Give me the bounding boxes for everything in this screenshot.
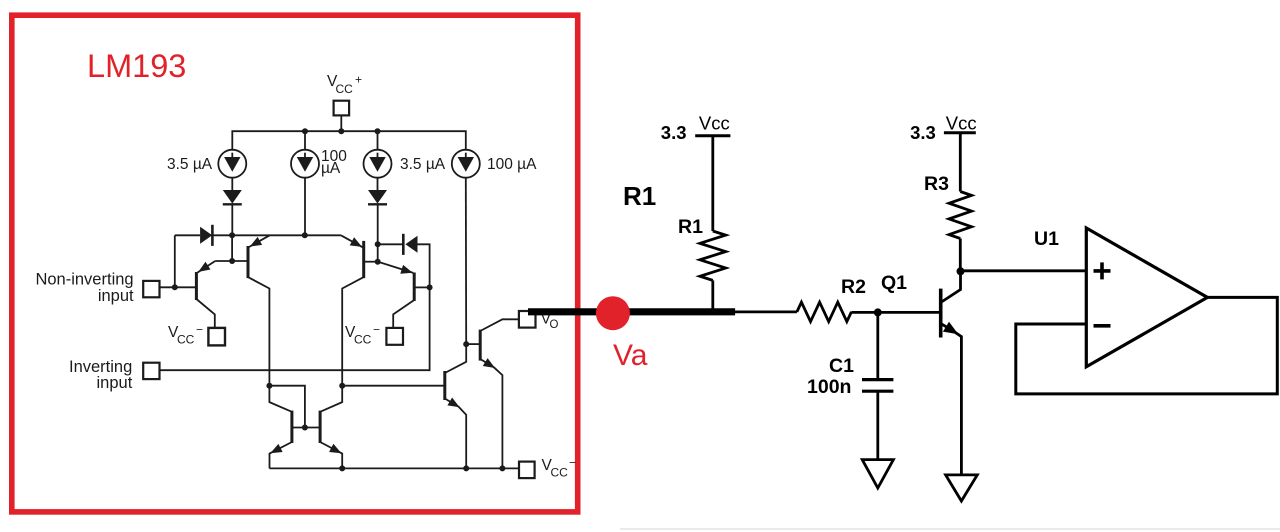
wire I3 node down to T5 base node	[377, 244, 379, 261]
wire node N to T7 base	[342, 385, 445, 387]
wire I2 feed	[304, 178, 306, 236]
wire emitter rail L1	[212, 234, 341, 236]
terminal non-inverting input	[143, 281, 159, 297]
transistor Q1	[941, 271, 962, 475]
node M (mirror left)	[266, 383, 272, 389]
current source I3 3.5uA	[364, 150, 392, 178]
wire VCC+ stub	[340, 115, 342, 131]
node Va (red)	[596, 296, 630, 330]
transistor T6 (inverting input follower PNP)	[378, 262, 430, 328]
terminal VO	[519, 311, 536, 328]
op-amp U1	[1086, 228, 1207, 367]
node rail-3.5uA3	[375, 128, 381, 134]
red LM193 boundary box	[12, 15, 578, 512]
node rail-T8	[499, 465, 505, 471]
wire feedback loop	[1016, 297, 1278, 394]
wire thin line to R2	[733, 310, 797, 313]
transistor T8 (output NPN)	[466, 319, 519, 468]
terminal VCC- 3	[519, 462, 535, 479]
resistor R3	[949, 133, 972, 271]
op-amp plus sign	[1094, 262, 1111, 279]
node rail-T7	[463, 465, 469, 471]
current source I2 100uA	[291, 150, 319, 178]
wire 3.5uA-3 stub	[377, 131, 379, 150]
wire top rail	[232, 131, 465, 150]
transistor T2 (diff pair left PNP)	[248, 235, 270, 385]
svg-text:−: −	[569, 456, 576, 470]
node rail-100uA2	[302, 128, 308, 134]
svg-text:CC: CC	[551, 466, 569, 480]
transistor T7 (driver NPN)	[445, 344, 466, 468]
power Vcc bar 2	[944, 131, 976, 134]
wire inverting input line	[160, 287, 430, 370]
svg-text:100 µA: 100 µA	[487, 156, 537, 173]
wire 100uA-2 stub	[304, 131, 306, 150]
wire base line T2	[215, 260, 248, 262]
diode under I3	[368, 178, 387, 245]
transistor T5 (diff pair right PNP)	[341, 235, 378, 385]
svg-text:R3: R3	[924, 173, 949, 195]
svg-text:3.5 µA: 3.5 µA	[167, 156, 213, 173]
wire I1 node to T1/T2 node	[231, 235, 233, 261]
node T1e-T2b	[229, 258, 235, 264]
svg-text:R1: R1	[678, 216, 703, 238]
resistor R2	[797, 302, 852, 321]
svg-text:Vcc: Vcc	[946, 113, 977, 134]
svg-text:3.5 µA: 3.5 µA	[400, 156, 446, 173]
svg-text:U1: U1	[1034, 228, 1059, 250]
resistor R1	[700, 136, 726, 312]
svg-text:Q1: Q1	[881, 272, 907, 294]
svg-text:µA: µA	[321, 160, 341, 177]
power Vcc bar 1	[695, 134, 730, 137]
node R2-C1-Q1	[874, 308, 882, 316]
ground (C1)	[862, 460, 893, 488]
diode D1 (left, anode to input follower)	[175, 225, 213, 287]
svg-text:C1: C1	[829, 355, 854, 377]
svg-text:R2: R2	[841, 276, 866, 298]
node T7c-T8b	[463, 341, 469, 347]
svg-text:−: −	[196, 323, 203, 337]
svg-text:CC: CC	[177, 333, 195, 347]
svg-text:Inverting: Inverting	[69, 358, 132, 376]
diode D3 (right, cathode bar left)	[378, 234, 430, 288]
svg-text:Vcc: Vcc	[699, 113, 730, 134]
node input-D1	[172, 284, 178, 290]
terminal inverting input	[143, 363, 159, 379]
node base tie	[302, 425, 308, 431]
svg-text:Va: Va	[613, 339, 648, 372]
node T6 base	[427, 284, 433, 290]
wire bottom VCC- rail	[270, 467, 520, 469]
node L1-I2	[302, 232, 308, 238]
wire to op-amp + input	[961, 269, 1087, 272]
wire R2 to Q1 base	[851, 311, 940, 314]
svg-text:CC: CC	[336, 82, 354, 96]
node N (mirror right)	[339, 383, 345, 389]
ground (Q1)	[946, 475, 978, 501]
transistor T3 (mirror left NPN, diode connected)	[269, 386, 320, 469]
node rail-vccfeed	[338, 128, 344, 134]
svg-text:Non-inverting: Non-inverting	[35, 271, 133, 289]
faint window edge bottom	[620, 528, 1280, 530]
svg-text:LM193: LM193	[87, 48, 186, 84]
terminal VCC- 1	[208, 328, 225, 346]
op-amp minus sign	[1094, 324, 1111, 328]
svg-text:R1: R1	[623, 181, 656, 211]
terminal VCC- 2	[386, 328, 403, 345]
diode under I1	[223, 178, 242, 236]
wire node M to base tie	[269, 386, 305, 428]
current source I1 3.5uA	[218, 150, 246, 178]
svg-text:−: −	[373, 323, 380, 337]
svg-text:3.3: 3.3	[661, 122, 687, 143]
svg-text:100n: 100n	[807, 376, 851, 398]
current source I4 100uA	[452, 150, 480, 178]
svg-text:input: input	[98, 287, 134, 305]
node L1-I1	[229, 232, 235, 238]
svg-text:+: +	[355, 73, 362, 87]
transistor T1 (non-inverting input follower PNP)	[160, 261, 216, 328]
node Q1c-R3	[957, 267, 965, 275]
node I3-D3	[375, 241, 381, 247]
svg-text:3.3: 3.3	[910, 122, 936, 143]
node rail-T4	[339, 465, 345, 471]
capacitor C1	[862, 312, 893, 459]
svg-text:O: O	[550, 319, 559, 331]
node T5b-T6e	[375, 259, 381, 265]
svg-text:input: input	[97, 374, 133, 392]
VCC+ terminal square	[334, 101, 350, 116]
transistor T4 (mirror right NPN)	[320, 386, 342, 469]
svg-text:CC: CC	[354, 333, 372, 347]
wire I4 down	[465, 178, 467, 344]
wire thick Va output line	[528, 308, 735, 315]
